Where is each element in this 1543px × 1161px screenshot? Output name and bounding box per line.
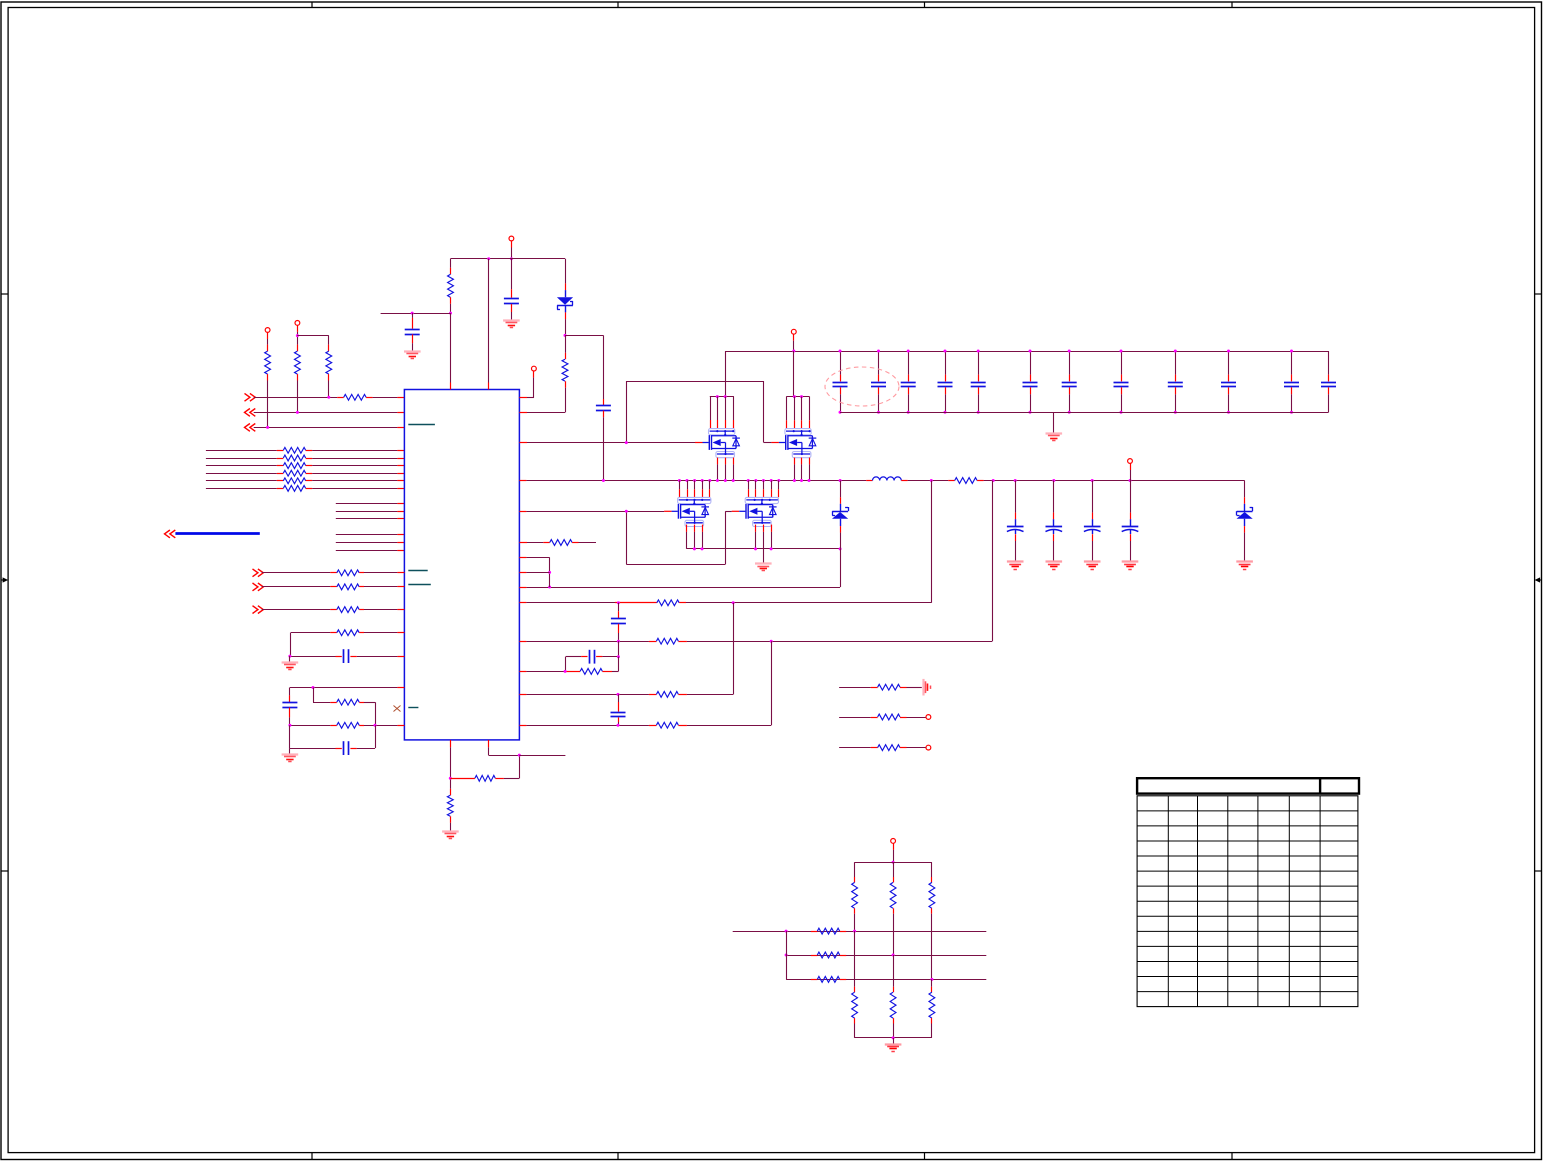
- capacitor CB9: [1168, 351, 1183, 412]
- junction: [625, 510, 628, 513]
- wire row3: [786, 979, 986, 981]
- junction: [288, 655, 291, 658]
- capacitor CO4 (polarized): [1122, 481, 1139, 562]
- wire Q2 drain bundle: [787, 397, 810, 429]
- junction: [944, 350, 947, 353]
- wire VIN to Q2: [793, 351, 795, 397]
- wire gate drive low: [519, 511, 731, 564]
- resistor RN7 (vertical): [852, 931, 858, 1038]
- junction: [800, 395, 803, 398]
- capacitor C7: [290, 649, 405, 663]
- wire top bar: [855, 862, 932, 864]
- wire pin stub: [336, 518, 405, 520]
- capacitor C4: [611, 603, 626, 641]
- junction: [449, 312, 452, 315]
- junction: [853, 930, 856, 933]
- junction: [724, 479, 727, 482]
- junction: [1227, 350, 1230, 353]
- wire row1: [733, 931, 987, 933]
- junction: [732, 601, 735, 604]
- transistor Q4 (N-MOSFET): [732, 497, 779, 526]
- junction: [716, 479, 719, 482]
- resistor RN5: [811, 952, 846, 958]
- resistor R2 (vertical): [295, 325, 301, 412]
- junction: [1014, 479, 1017, 482]
- junction: [930, 479, 933, 482]
- resistor R16: [262, 584, 405, 590]
- wire ground stub: [893, 1038, 895, 1044]
- junction: [701, 547, 704, 550]
- resistor R7: [948, 478, 983, 484]
- inductor L1: [866, 477, 907, 481]
- transistor Q1 (P-MOSFET): [695, 429, 740, 458]
- junction: [487, 257, 490, 260]
- resistor R20: [290, 722, 405, 728]
- capacitor C9 (bottom loop): [290, 725, 376, 755]
- bus line (blue): [175, 532, 259, 535]
- resistor RN9 (vertical): [929, 979, 935, 1038]
- sheet-entry arrow (bus): [165, 530, 176, 538]
- wire: [565, 335, 604, 399]
- junction: [1290, 350, 1293, 353]
- junction: [770, 479, 773, 482]
- wire left tie: [786, 931, 788, 979]
- junction: [777, 479, 780, 482]
- op-amp U1 (controller IC body): [404, 390, 519, 740]
- junction: [617, 655, 620, 658]
- capacitor C2: [504, 259, 519, 320]
- junction: [701, 479, 704, 482]
- wire Q4 ground stub: [763, 549, 765, 563]
- wire power ground bus: [687, 548, 840, 550]
- border mid arrow right: [1535, 577, 1542, 582]
- junction: [1052, 479, 1055, 482]
- junction: [839, 411, 842, 414]
- junction: [770, 547, 773, 550]
- junction: [617, 640, 620, 643]
- resistor R15: [262, 570, 405, 576]
- ground: [1046, 432, 1063, 434]
- wire: [511, 241, 513, 259]
- capacitor CB3: [901, 351, 916, 412]
- resistor RN6: [811, 977, 846, 983]
- wire pin stub: [336, 542, 405, 544]
- junction: [907, 350, 910, 353]
- capacitor CB1: [833, 351, 848, 412]
- U1 pin label marks (teal): [408, 425, 435, 708]
- wire: [297, 335, 328, 337]
- connector J5: [791, 329, 796, 334]
- junction: [312, 686, 315, 689]
- junction: [977, 350, 980, 353]
- wire Q4 source bundle: [756, 525, 772, 549]
- junction: [548, 586, 551, 589]
- wire pgnd sense: [519, 549, 840, 588]
- connector J4: [532, 366, 537, 371]
- wire: [381, 313, 451, 315]
- wire gate drive high: [519, 381, 771, 443]
- wire Q1 drain bar: [710, 396, 734, 398]
- junction: [839, 350, 842, 353]
- junction: [686, 479, 689, 482]
- wire: [893, 843, 895, 862]
- junction: [1068, 411, 1071, 414]
- wire line1: [254, 397, 338, 399]
- ground: [282, 753, 299, 755]
- wire: [450, 313, 452, 389]
- resistor RB2 (bus): [206, 455, 405, 461]
- junction: [617, 693, 620, 696]
- resistor RN2 (vertical): [890, 862, 896, 955]
- wire ground stub: [1053, 412, 1055, 433]
- resistor R10 (vertical to ground): [447, 740, 453, 831]
- junction: [602, 479, 605, 482]
- wire pin p10: [519, 481, 992, 645]
- wire line3: [254, 427, 405, 429]
- junction: [793, 395, 796, 398]
- wire pin p1: [519, 412, 565, 414]
- capacitor CB5: [971, 351, 986, 412]
- transistor Q3 (N-MOSFET): [664, 497, 711, 526]
- junction: [1290, 411, 1293, 414]
- junction: [548, 571, 551, 574]
- resistor R1 (vertical): [265, 332, 271, 427]
- resistor RN1 (vertical): [852, 862, 858, 931]
- resistor RB5 (bus): [206, 478, 405, 484]
- ground: [885, 1043, 902, 1045]
- junction: [977, 411, 980, 414]
- resistor R8: [519, 540, 596, 546]
- junction: [1120, 350, 1123, 353]
- capacitor CO1 (polarized): [1007, 481, 1024, 562]
- sheet-entry arrow: [253, 606, 264, 614]
- capacitor CB6: [1023, 351, 1038, 412]
- wire pin stub: [336, 511, 405, 513]
- capacitor CB8: [1114, 351, 1129, 412]
- junction: [1068, 350, 1071, 353]
- capacitor C1: [405, 313, 420, 351]
- junction: [992, 479, 995, 482]
- ground: [442, 830, 459, 832]
- connector J3: [509, 236, 514, 241]
- junction: [892, 861, 895, 864]
- resistor RB6 (bus): [206, 486, 405, 492]
- connector J1: [265, 328, 270, 333]
- wire pin p0: [519, 371, 534, 398]
- ground: [1007, 560, 1024, 562]
- junction: [510, 257, 513, 260]
- junction: [716, 395, 719, 398]
- resistor RN8 (vertical): [890, 955, 896, 1038]
- wire pin p6: [519, 557, 549, 587]
- wire pin bottom2: [489, 740, 520, 756]
- wire Q2 drain bar: [786, 396, 809, 398]
- diode D2 (schottky): [832, 481, 849, 549]
- ground: [1122, 560, 1139, 562]
- sheet-entry arrow: [245, 424, 256, 432]
- junction: [266, 426, 269, 429]
- junction: [693, 479, 696, 482]
- capacitor CB11: [1284, 351, 1299, 412]
- ground: [503, 319, 520, 321]
- junction: [693, 547, 696, 550]
- junction: [678, 479, 681, 482]
- junction: [1174, 350, 1177, 353]
- capacitor C6: [611, 694, 626, 725]
- junction: [617, 601, 620, 604]
- wire Q1 drain bundle: [711, 397, 734, 429]
- wire Q3 source bundle: [687, 525, 703, 549]
- resistor R18: [291, 630, 405, 656]
- ground: [404, 350, 421, 352]
- wire Q2 source bundle: [795, 458, 810, 481]
- diode D3 (schottky): [1237, 481, 1253, 562]
- wire Q3 drain bundle: [680, 481, 710, 498]
- junction: [1174, 411, 1177, 414]
- junction: [564, 334, 567, 337]
- junction: [930, 978, 933, 981]
- junction: [785, 930, 788, 933]
- connector J2: [295, 321, 300, 326]
- transistor Q2 (P-MOSFET): [771, 429, 816, 458]
- wire rail bottom: [840, 412, 1329, 414]
- resistor R17: [262, 607, 405, 613]
- junction: [877, 350, 880, 353]
- junction: [839, 479, 842, 482]
- resistor R13: [839, 714, 926, 720]
- junction: [892, 954, 895, 957]
- sheet-entry arrow: [253, 583, 264, 591]
- junction: [449, 777, 452, 780]
- diode D1 (schottky): [557, 259, 573, 336]
- wire Q1 source bundle: [718, 458, 734, 481]
- junction: [708, 479, 711, 482]
- wire pin p12: [519, 603, 733, 698]
- junction: [839, 547, 842, 550]
- junction: [374, 724, 377, 727]
- wire: [908, 480, 949, 482]
- capacitor CB7: [1062, 351, 1077, 412]
- resistor R3 (vertical): [326, 336, 332, 398]
- junction: [1227, 411, 1230, 414]
- wire pin p13: [519, 641, 771, 728]
- junction: [617, 724, 620, 727]
- ground: [1084, 560, 1101, 562]
- resistor RB3 (bus): [206, 463, 405, 469]
- capacitor CB4: [938, 351, 953, 412]
- wire pin stub: [336, 550, 405, 552]
- junction: [762, 479, 765, 482]
- ground: [1046, 560, 1063, 562]
- no-connect X mark: [394, 706, 401, 712]
- wire pin p7: [519, 572, 549, 574]
- sheet-entry arrow: [245, 393, 256, 401]
- resistor RB4 (bus): [206, 470, 405, 476]
- wire ground stub: [289, 748, 291, 754]
- junction: [747, 479, 750, 482]
- wire stub: [519, 755, 565, 757]
- border mid arrow left: [1, 577, 8, 582]
- junction: [944, 411, 947, 414]
- junction: [770, 640, 773, 643]
- junction: [518, 754, 521, 757]
- junction: [877, 411, 880, 414]
- connector J9: [891, 839, 896, 844]
- wire VIN rail top: [725, 351, 1328, 353]
- junction: [411, 312, 414, 315]
- capacitor C3: [596, 399, 611, 481]
- connector J7: [926, 715, 931, 720]
- resistor R11: [450, 755, 519, 781]
- capacitor CO2 (polarized): [1046, 481, 1063, 562]
- junction: [625, 441, 628, 444]
- wire bottom bar: [855, 1037, 932, 1039]
- connector J6: [1128, 459, 1133, 464]
- capacitor C8: [282, 688, 297, 726]
- junction: [1091, 479, 1094, 482]
- junction: [1029, 350, 1032, 353]
- junction: [907, 411, 910, 414]
- wire output rail: [984, 480, 1245, 482]
- highlight ellipse (dashed): [825, 367, 899, 406]
- revision table: [1137, 778, 1359, 1006]
- capacitor CB12: [1321, 351, 1336, 412]
- junction: [808, 479, 811, 482]
- resistor R12 to chassis ground: [839, 684, 922, 690]
- wire switch node rail: [519, 480, 866, 482]
- wire: [793, 334, 795, 351]
- junction: [792, 350, 795, 353]
- wire supply top: [451, 258, 566, 260]
- resistor RN3 (vertical): [929, 862, 935, 979]
- junction: [754, 547, 757, 550]
- junction: [296, 411, 299, 414]
- junction: [1120, 411, 1123, 414]
- wire: [488, 259, 490, 390]
- connector J8: [926, 745, 931, 750]
- junction: [892, 1036, 895, 1039]
- junction: [724, 395, 727, 398]
- wire ground stub: [289, 656, 291, 662]
- wire: [1130, 463, 1132, 480]
- capacitor CB10: [1221, 351, 1236, 412]
- ground: [755, 562, 772, 564]
- capacitor CB2: [871, 351, 886, 412]
- resistor R9 (RC pair): [519, 657, 618, 675]
- junction: [564, 670, 567, 673]
- capacitor CO3 (polarized): [1084, 481, 1101, 562]
- junction: [732, 479, 735, 482]
- sheet-entry arrow: [245, 409, 256, 417]
- capacitor C5 (RC pair): [566, 641, 619, 663]
- wire row2: [786, 955, 986, 957]
- junction: [288, 724, 291, 727]
- junction: [327, 396, 330, 399]
- wire line2: [254, 412, 405, 414]
- junction: [754, 479, 757, 482]
- ground: [1236, 560, 1253, 562]
- ground (side): [922, 679, 924, 696]
- wire FB sense: [519, 481, 931, 606]
- resistor R6 (vertical): [562, 335, 568, 412]
- junction: [1029, 411, 1032, 414]
- wire VIN to Q1: [725, 351, 727, 397]
- node junction: [296, 334, 299, 337]
- wire comp line F: [290, 687, 405, 689]
- resistor R19 (comp jog): [313, 688, 376, 726]
- resistor RB1 (bus): [206, 447, 405, 453]
- wire Q4 drain bundle: [749, 481, 779, 498]
- junction: [793, 479, 796, 482]
- junction: [800, 479, 803, 482]
- resistor R4: [337, 394, 404, 400]
- resistor RN4: [811, 928, 846, 934]
- wire pin stub: [336, 503, 405, 505]
- resistor R5 (vertical): [448, 259, 454, 313]
- junction: [785, 954, 788, 957]
- junction: [1129, 479, 1132, 482]
- resistor R14: [839, 745, 926, 751]
- ground: [282, 661, 299, 663]
- sheet-entry arrow: [253, 569, 264, 577]
- wire pin stub: [336, 534, 405, 536]
